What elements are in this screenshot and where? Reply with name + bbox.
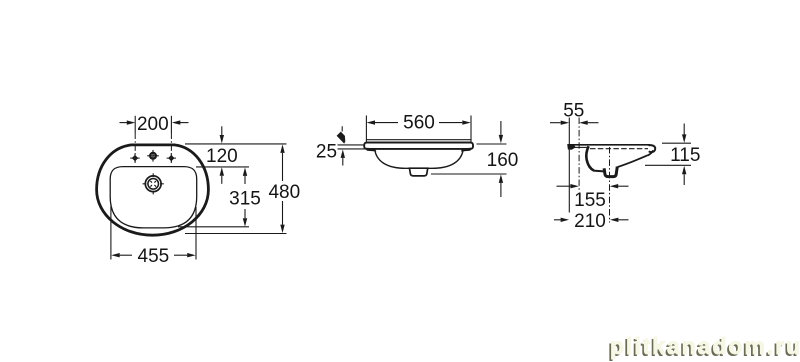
- watermark plitkanadom.ru: [610, 333, 800, 360]
- bowl right wall (side): [648, 150, 653, 155]
- svg-text:200: 200: [137, 114, 169, 135]
- drain tail (front): [410, 168, 428, 176]
- bowl floor right rising line (side): [618, 155, 648, 167]
- ext line 25 top: [338, 144, 364, 146]
- dim 210 right arrow: [618, 219, 628, 221]
- drain crosshair ticks: [143, 173, 164, 194]
- drain (plan) inner circle: [148, 179, 159, 190]
- rim top line (side): [568, 144, 651, 146]
- ext line outer-top (plan): [185, 143, 287, 145]
- dim 25 up arrow: [342, 158, 344, 166]
- drain recess (side): [604, 167, 617, 177]
- svg-text:480: 480: [268, 182, 300, 203]
- dim 155 right arrow: [618, 185, 628, 187]
- ext line 560 left: [365, 116, 367, 142]
- dim 200 right arrow: [180, 122, 189, 124]
- svg-text:210: 210: [574, 211, 606, 232]
- drain (plan) outer circle: [145, 176, 161, 192]
- tap hole right: [168, 155, 174, 161]
- dim 160 up arrow: [500, 183, 502, 197]
- rim hidden bottom line (dashed): [590, 148, 648, 150]
- ext line 25 bottom: [338, 148, 372, 150]
- svg-text:160: 160: [487, 150, 519, 171]
- ext line 115 top: [662, 142, 691, 144]
- ext line outer-bottom (plan): [185, 233, 287, 235]
- ext line 115 bottom: [645, 164, 691, 166]
- svg-text:55: 55: [563, 100, 584, 121]
- dim 115 up arrow: [683, 174, 685, 185]
- dim 155 left arrow: [557, 185, 571, 187]
- dim 210 left arrow: [554, 219, 561, 221]
- ext line inner-top (plan): [196, 166, 249, 168]
- drain inner X marks: [150, 181, 156, 187]
- svg-text:560: 560: [403, 112, 435, 133]
- inner basin outline (plan): [110, 167, 197, 228]
- ext line 160 bottom: [431, 173, 507, 175]
- dim 160 down arrow: [500, 121, 502, 135]
- tap hole left: [132, 155, 138, 161]
- dim 455 right arrow: [174, 254, 187, 256]
- tap centerline (dash-dot): [578, 118, 580, 191]
- dim 120 up arrow: [221, 176, 223, 184]
- dim 55 right arrow: [588, 122, 599, 124]
- rim bar right lip (front): [461, 148, 473, 152]
- centerline left tap hole (dash-dot): [134, 116, 136, 133]
- ext line inner-bottom (plan): [178, 226, 249, 228]
- svg-text:120: 120: [206, 146, 238, 167]
- dim 480 top arrow: [282, 153, 284, 181]
- svg-text:155: 155: [574, 190, 606, 211]
- dim 315 bottom arrow: [244, 209, 246, 218]
- dim 560 right arrow: [439, 122, 462, 124]
- drain centerline (dash-dot): [609, 147, 611, 223]
- dim 115 down arrow: [683, 124, 685, 135]
- dim 455 left arrow: [120, 254, 132, 256]
- ext line 560 right: [470, 116, 472, 142]
- rim bottom line left (side): [573, 146, 588, 148]
- back rim edge line: [366, 139, 471, 141]
- outer basin outline (plan): [97, 145, 209, 235]
- dim 560 left arrow: [375, 122, 398, 124]
- dim 55 left arrow: [550, 122, 561, 124]
- dim 120 down arrow: [221, 126, 223, 135]
- bowl outline (front): [375, 151, 463, 169]
- dim 200 left arrow: [120, 122, 128, 124]
- svg-text:115: 115: [670, 145, 700, 166]
- ext line 160 top: [477, 143, 507, 145]
- bowl left wall (side): [586, 146, 593, 170]
- svg-text:455: 455: [138, 246, 170, 267]
- svg-text:315: 315: [229, 189, 261, 210]
- dim 315 top arrow: [244, 176, 246, 184]
- ext line 455 right: [195, 207, 197, 260]
- dim 25 slanted top arrow: [341, 126, 343, 131]
- tap hole middle: [149, 152, 157, 160]
- dim 480 bottom arrow: [282, 201, 284, 225]
- bowl floor to drain (side): [593, 170, 604, 173]
- rim left lip (side): [567, 144, 576, 150]
- rim bar (front): [364, 143, 473, 149]
- left edge extension line (solid): [568, 118, 570, 213]
- centerline right tap hole (dash-dot): [170, 116, 172, 133]
- ext line 455 left: [110, 206, 112, 260]
- svg-text:25: 25: [316, 142, 337, 163]
- rim right hook (side): [649, 145, 656, 152]
- rim bar left lip (front): [365, 148, 377, 152]
